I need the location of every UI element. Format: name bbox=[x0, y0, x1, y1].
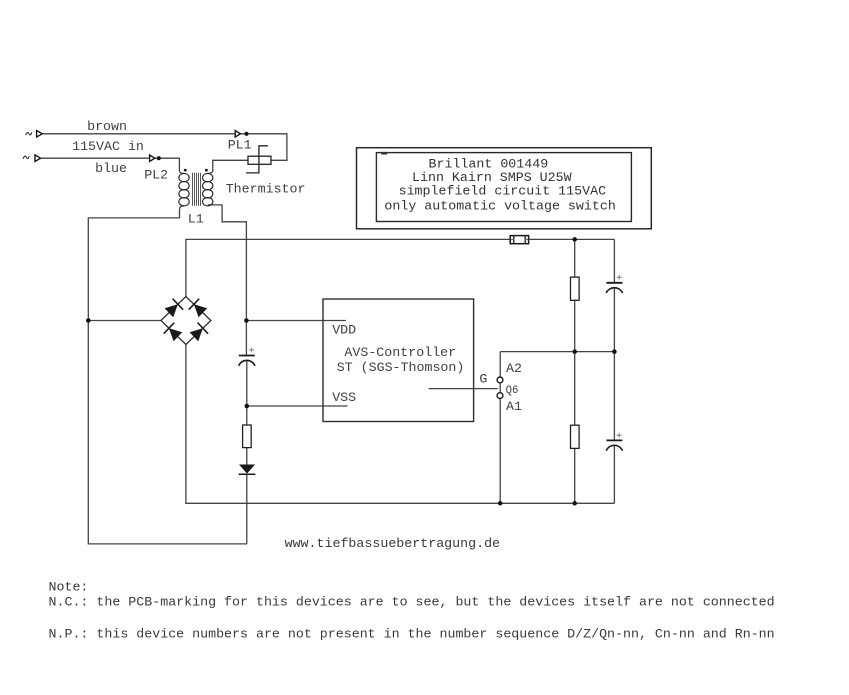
svg-text:115VAC in: 115VAC in bbox=[72, 139, 144, 154]
svg-text:PL2: PL2 bbox=[144, 168, 168, 183]
svg-text:ST (SGS-Thomson): ST (SGS-Thomson) bbox=[337, 360, 465, 375]
svg-text:simplefield circuit 115VAC: simplefield circuit 115VAC bbox=[399, 183, 606, 198]
svg-text:AVS-Controller: AVS-Controller bbox=[344, 345, 456, 360]
svg-text:blue: blue bbox=[95, 161, 127, 176]
svg-text:L1: L1 bbox=[188, 211, 204, 226]
svg-text:brown: brown bbox=[87, 119, 127, 134]
svg-text:A2: A2 bbox=[506, 361, 522, 376]
svg-text:www.tiefbassuebertragung.de: www.tiefbassuebertragung.de bbox=[285, 536, 500, 551]
svg-text:Note:: Note: bbox=[49, 579, 89, 594]
svg-text:N.C.: the PCB-marking for this: N.C.: the PCB-marking for this devices a… bbox=[49, 595, 775, 610]
svg-text:G: G bbox=[479, 372, 487, 387]
svg-text:A1: A1 bbox=[506, 399, 522, 414]
svg-text:Q6: Q6 bbox=[506, 385, 519, 397]
svg-text:PL1: PL1 bbox=[228, 137, 252, 152]
svg-text:Thermistor: Thermistor bbox=[226, 182, 306, 197]
svg-text:only automatic voltage switch: only automatic voltage switch bbox=[384, 199, 615, 214]
svg-text:VDD: VDD bbox=[332, 323, 356, 338]
svg-text:VSS: VSS bbox=[332, 390, 356, 405]
svg-text:N.P.: this device numbers are: N.P.: this device numbers are not presen… bbox=[49, 627, 775, 642]
